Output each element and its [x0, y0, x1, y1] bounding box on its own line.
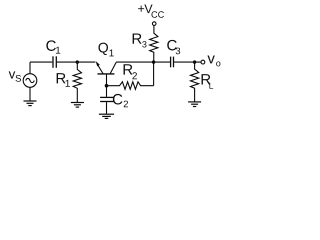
label vo — [207, 55, 220, 66]
transistor Q1 — [96, 61, 117, 86]
capacitor C2 — [100, 86, 114, 115]
wire: C1 to emitter — [57, 61, 96, 63]
node: collector/R2/R3/C3 junction dot — [152, 60, 155, 63]
label Q1 — [98, 43, 113, 57]
node: RL tap junction dot — [193, 60, 196, 63]
ground: below R1 — [71, 103, 84, 108]
resistor RL — [191, 62, 199, 102]
wire: C3 to output — [174, 61, 201, 63]
wire: collector to node — [116, 61, 170, 63]
label C2 — [113, 94, 128, 107]
label RL — [202, 74, 214, 88]
label +VCC — [138, 5, 164, 18]
ground: below RL — [188, 102, 201, 107]
wire: R2 riser to collector node — [153, 62, 155, 86]
power terminal +VCC — [152, 22, 156, 26]
resistor R1 — [73, 62, 81, 102]
label C3 — [167, 40, 180, 54]
output terminal vo — [201, 60, 205, 64]
resistor R2 — [107, 82, 154, 90]
wire: vs top lead — [29, 62, 31, 74]
voltage source vs — [23, 74, 37, 88]
wire: vs to C1 — [30, 61, 52, 63]
node: R1 tap junction dot — [76, 60, 79, 63]
capacitor C1 — [53, 56, 56, 68]
capacitor C3 — [171, 57, 174, 68]
label R3 — [133, 33, 147, 47]
ground: below C2 — [99, 114, 114, 118]
label vS — [9, 71, 21, 81]
node: base junction dot — [105, 84, 109, 88]
label C1 — [46, 40, 60, 53]
resistor R3 — [150, 25, 158, 62]
ground: below vs — [24, 101, 37, 106]
wire: vs bottom lead — [29, 87, 31, 101]
sine wave inside source — [26, 78, 35, 82]
label R2 — [124, 64, 137, 79]
label R1 — [57, 73, 70, 87]
